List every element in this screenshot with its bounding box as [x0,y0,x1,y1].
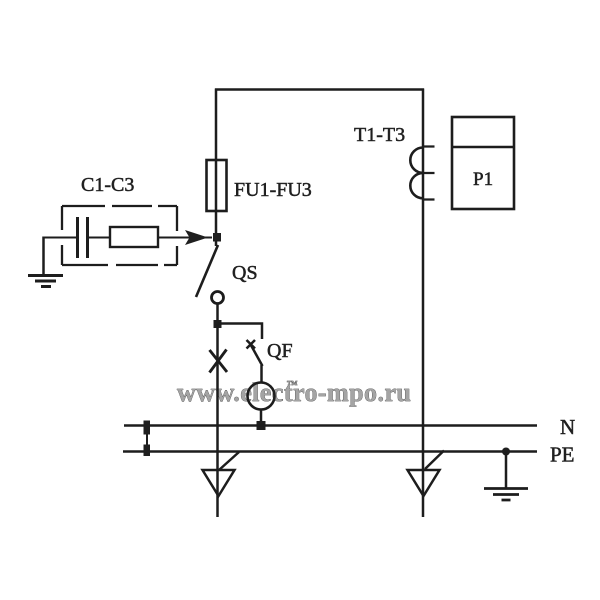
ground left [28,276,63,287]
wire left drop from top bus through fuse to node A [215,89,218,247]
svg-text:QF: QF [267,340,293,362]
resistor R [110,227,158,247]
connector X on left feeder [210,350,228,373]
bus N [124,424,537,427]
wire right drop from top bus through CT to feeder end [422,89,425,518]
meter box P1 divider [452,146,514,149]
wire lamp to N bus [260,409,263,426]
node C junction dot on N bus [257,421,266,430]
svg-text:C1-C3: C1-C3 [81,174,134,196]
wire PE tap diagonal to right feeder [425,451,444,470]
ground right [484,489,528,501]
jumper junction dot on N [144,421,151,435]
wire branch node B to QF [218,324,263,340]
svg-text:PE: PE [550,443,575,467]
svg-text:P1: P1 [473,169,493,190]
switch QS blade [196,245,218,297]
switch QS fixed contact circle [212,292,224,304]
wire capacitor to resistor [88,237,110,239]
jumper junction dot on PE [144,445,151,457]
current transformer T1-T3 windings [410,148,423,199]
bus PE [123,450,537,453]
wire PE to ground electrode [505,452,508,489]
node B junction dot [214,320,222,328]
arrow right feeder outgoing [408,470,440,496]
jumper N-PE link [146,421,148,455]
surge box C1-C3 dashed outline [62,206,177,265]
lamp HL circle [248,383,275,410]
arrowhead at node A [185,230,208,245]
fuse FU1-FU3 [207,160,227,211]
wire PE tap diagonal to left feeder [219,452,239,470]
wire QS contact to node B [216,304,219,327]
breaker QF blade with X tip [247,340,263,366]
meter box P1 [452,117,514,209]
wire top bus [215,88,424,91]
svg-text:T1-T3: T1-T3 [354,124,405,146]
svg-text:TM: TM [287,380,297,387]
svg-text:N: N [560,415,575,439]
wire QF to lamp [260,365,263,383]
capacitor C plates [78,217,88,258]
wire capacitor branch to left ground [42,237,45,275]
wire left feeder main drop [216,324,219,517]
wire ground to capacitor [43,237,78,239]
arrow left feeder outgoing [203,470,235,496]
svg-text:QS: QS [232,262,258,284]
watermark www.electro-mpo.ru [177,378,411,407]
node D junction dot PE to ground [502,448,510,456]
wire C-branch: resistor to node A [158,237,212,239]
svg-text:FU1-FU3: FU1-FU3 [234,179,312,201]
node A junction dot [213,233,221,242]
current transformer secondary ticks [423,147,435,200]
